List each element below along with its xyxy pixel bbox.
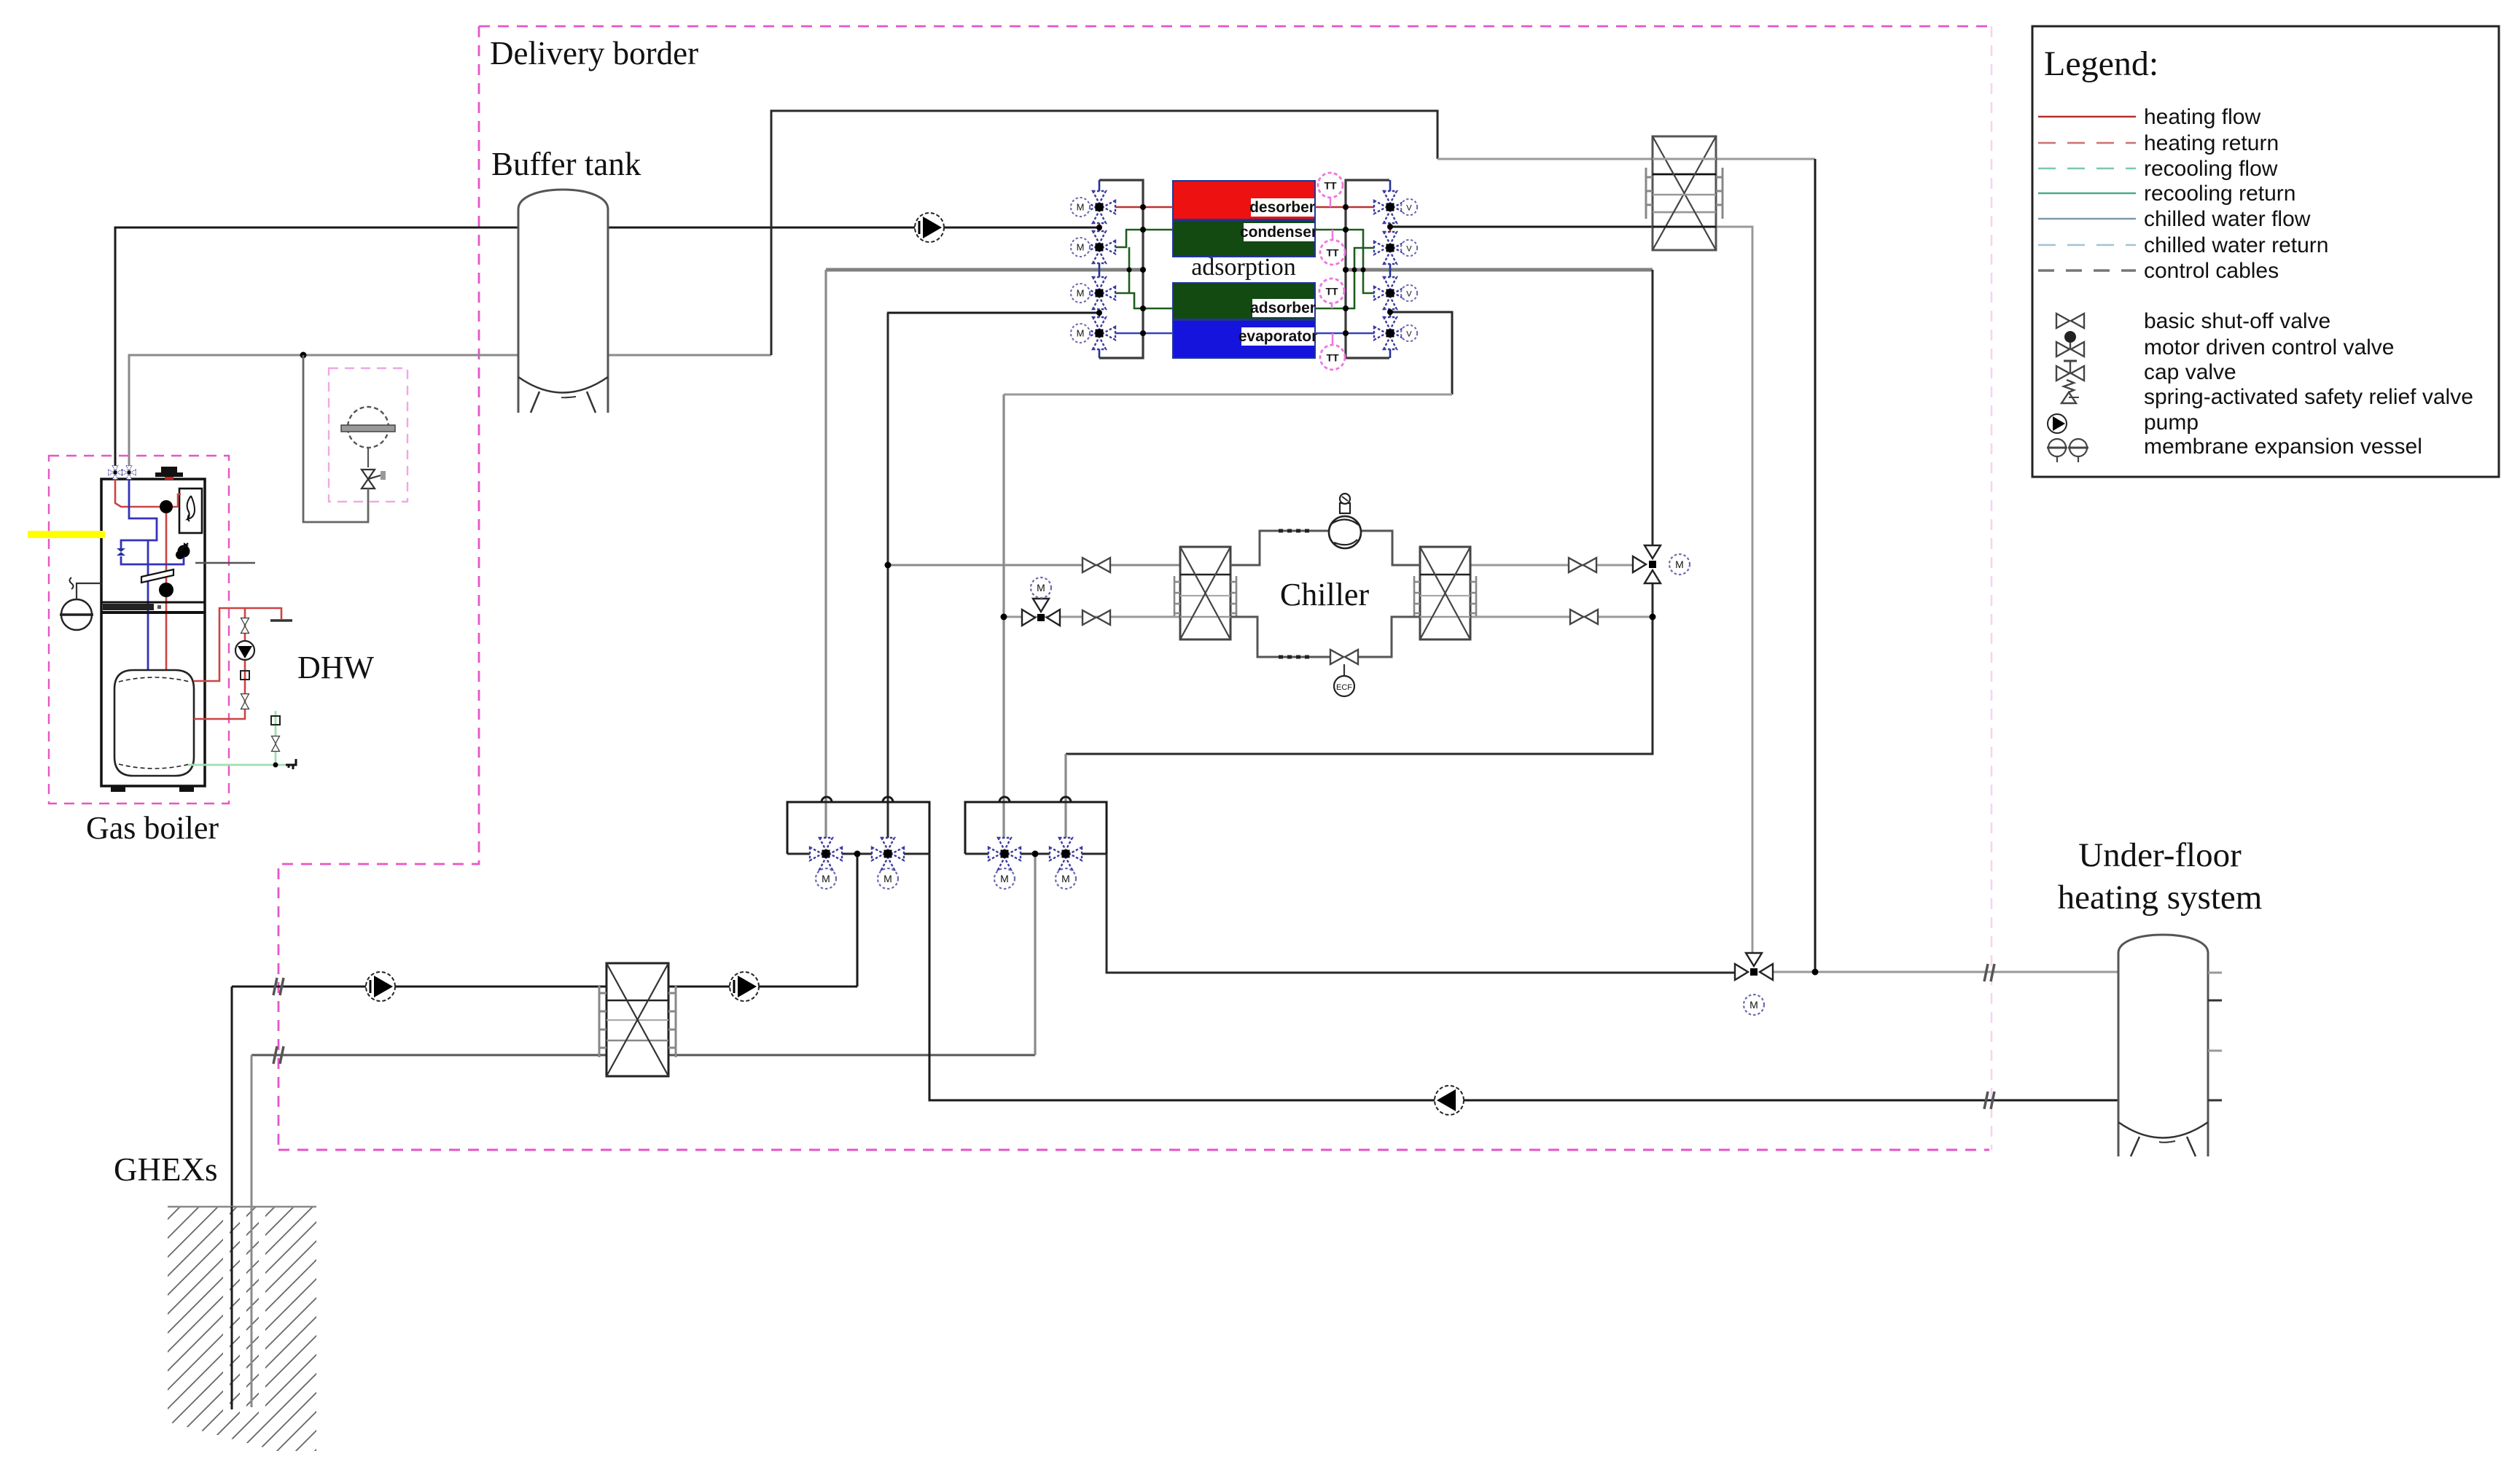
adsorption module evaporator box	[1173, 320, 1315, 358]
svg-text:GHEXs: GHEXs	[114, 1151, 218, 1188]
wire recooling thick gray right segment	[1346, 268, 1653, 272]
gas boiler flame chamber	[179, 489, 202, 533]
gas boiler pump top	[160, 500, 173, 513]
legend recooling flow line	[2038, 157, 2278, 181]
svg-text:desorber: desorber	[1249, 199, 1315, 216]
wire green cross link left	[1128, 247, 1131, 293]
legend box	[2032, 26, 2499, 477]
delivery border dashed boundary	[278, 26, 1992, 1150]
wire black drop from evaporator row to left cluster	[887, 312, 1099, 314]
vessel drain pipe to return line	[303, 355, 368, 522]
wire chilled top run to HX (gray)	[1438, 158, 1653, 160]
wire gray run to chiller lower drop	[1004, 394, 1452, 396]
legend cap valve symbol	[2056, 360, 2236, 384]
legend membrane expansion vessel symbol	[2047, 435, 2422, 462]
legend heating return line	[2038, 131, 2279, 155]
cluster valve 4	[1050, 838, 1082, 870]
node junction dots on main runs	[300, 352, 1819, 976]
wire heating flow buffer tank to adsorption valve column	[608, 227, 1099, 229]
gas supply yellow line	[28, 531, 105, 538]
wire left cluster bar	[787, 853, 929, 855]
wire heating flow right column to top-right heat exchanger	[1389, 226, 1653, 228]
TT sensor condenser	[1320, 230, 1345, 265]
wire chiller upper line right of HX	[1471, 564, 1637, 567]
motor valve right column evaporator	[1374, 317, 1406, 349]
legend chilled water flow line	[2038, 207, 2311, 231]
TT sensor adsorber	[1319, 279, 1344, 308]
chiller drain valve	[1330, 650, 1358, 664]
right manifold vertical	[1346, 180, 1389, 358]
svg-text:recooling return: recooling return	[2144, 182, 2295, 206]
wire buffer return to riser (gray)	[608, 354, 771, 357]
wire right drop to under-floor supply junction (black)	[1814, 159, 1817, 972]
wire left cluster bypass bracket	[787, 802, 929, 854]
svg-text:basic shut-off valve: basic shut-off valve	[2144, 309, 2330, 333]
wire recooling thick gray left segment	[826, 268, 1143, 272]
three-way motor valve recooling drop	[1633, 545, 1690, 583]
pump P4 under-floor return	[1435, 1086, 1464, 1115]
gas boiler DHW storage tank	[114, 670, 194, 776]
cold water sensor box	[271, 716, 280, 725]
svg-text:heating flow: heating flow	[2144, 105, 2260, 129]
pipe break ticks at delivery border	[273, 964, 1994, 1109]
chiller upper loop pipe	[1230, 531, 1329, 565]
svg-text:adsorber: adsorber	[1250, 300, 1316, 316]
three-way motor valve under-floor supply	[1735, 953, 1773, 1015]
label adsorber	[1250, 299, 1316, 317]
control cable boiler to DHW riser	[195, 562, 255, 564]
svg-text:Delivery border: Delivery border	[490, 35, 698, 71]
wire chiller lower line right of HX	[1471, 616, 1653, 618]
gas boiler dashed enclosure	[49, 456, 229, 804]
wire riser to top run (black)	[771, 111, 1438, 355]
svg-text:DHW: DHW	[297, 650, 375, 685]
svg-text:Chiller: Chiller	[1280, 577, 1370, 612]
heat exchanger bottom (ground loop)	[599, 963, 676, 1076]
wire bottom line A GHEX to left cluster	[232, 986, 857, 988]
DHW tap symbol	[270, 619, 292, 622]
motor valve right column adsorber	[1374, 277, 1406, 309]
chiller left heat exchanger	[1174, 547, 1236, 639]
gas boiler cabinet	[101, 479, 205, 786]
chiller flex coupling upper	[1279, 529, 1309, 533]
DHW riser hot pipe	[194, 608, 281, 719]
wire blue evaporator row left	[1111, 332, 1173, 335]
DHW check valve	[241, 618, 249, 634]
membrane vessel dashed enclosure	[329, 368, 407, 502]
wire chiller lower line from junction	[1004, 616, 1180, 618]
svg-text:cap valve: cap valve	[2144, 360, 2236, 384]
gas boiler mid band	[101, 602, 205, 612]
svg-text:chilled water flow: chilled water flow	[2144, 207, 2311, 231]
motor valve left column condenser	[1083, 231, 1115, 263]
svg-text:membrane expansion vessel: membrane expansion vessel	[2144, 435, 2422, 459]
wire heating return boiler to buffer tank (gray)	[129, 355, 518, 474]
wire supply from right cluster to under-floor valve	[1107, 854, 1744, 973]
pump P1 heating flow	[915, 213, 944, 242]
gas boiler pump mid	[178, 545, 190, 558]
pump P3 ground loop	[730, 972, 759, 1001]
wire GHEX down pipe gray	[251, 1055, 253, 1407]
left valve column connectors	[1099, 180, 1101, 192]
svg-text:motor driven control valve: motor driven control valve	[2144, 335, 2394, 359]
legend pump symbol	[2048, 411, 2199, 435]
wire HX to right drop (gray)	[1716, 158, 1815, 160]
membrane expansion vessel	[341, 407, 395, 448]
motor valve left column desorber	[1083, 191, 1115, 223]
left manifold vertical	[1099, 180, 1143, 358]
gas boiler top stem valves	[109, 466, 136, 479]
wire evaporator right row to drop	[1390, 312, 1452, 394]
pump P2 ground loop	[366, 972, 395, 1001]
svg-text:heating system: heating system	[2058, 879, 2263, 917]
gas boiler flue connection	[155, 467, 183, 480]
svg-text:recooling flow: recooling flow	[2144, 157, 2278, 181]
heat exchanger top right	[1646, 136, 1723, 250]
label evaporator	[1238, 327, 1318, 346]
cold water faucet	[286, 759, 296, 769]
legend recooling return line	[2038, 182, 2295, 206]
adsorption module desorber box	[1173, 181, 1315, 219]
chiller flex coupling lower	[1279, 655, 1309, 659]
legend control cables line	[2038, 259, 2279, 283]
wire recooling drop through 3-way valve to right cluster	[1652, 270, 1654, 549]
under-floor heating tank	[2118, 935, 2222, 1156]
wire under-floor supply from valve to tank (gray)	[1764, 971, 2118, 973]
shut-off valve chiller upper left	[1082, 558, 1110, 572]
chiller lower loop pipe	[1230, 617, 1330, 657]
safety relief valve	[362, 448, 386, 489]
wire red desorber row left	[1111, 206, 1173, 209]
right valve column connectors	[1389, 180, 1392, 192]
wire heating flow HX to under-floor supply valve	[1716, 227, 1752, 956]
gas boiler internal red piping	[115, 479, 181, 678]
wire hop bumps at cluster brackets	[822, 797, 1071, 802]
DHW circulation pump	[235, 641, 254, 660]
svg-text:Legend:: Legend:	[2044, 44, 2158, 83]
svg-text:Buffer tank: Buffer tank	[491, 146, 641, 182]
shut-off valve chiller lower right	[1570, 610, 1598, 624]
svg-text:adsorption: adsorption	[1191, 254, 1296, 281]
gas boiler pump low	[159, 583, 173, 597]
three-way motor valve chiller lower left	[1022, 577, 1060, 626]
motor valve left column adsorber	[1083, 277, 1115, 309]
svg-text:spring-activated safety relief: spring-activated safety relief valve	[2144, 385, 2473, 409]
label condenser	[1240, 223, 1317, 241]
wire blue evaporator row right	[1315, 332, 1378, 335]
wire red desorber row right	[1315, 206, 1378, 209]
expansion vessel boiler	[60, 577, 101, 630]
wire green condenser row left	[1111, 230, 1173, 247]
TT sensor evaporator	[1320, 333, 1345, 370]
svg-text:ECF: ECF	[1336, 683, 1352, 692]
gas boiler internal blue piping	[121, 479, 184, 763]
motor valve right column condenser	[1374, 232, 1406, 264]
DHW sensor box	[241, 671, 249, 680]
legend heating flow line	[2038, 105, 2260, 129]
svg-text:condenser: condenser	[1240, 224, 1317, 241]
chiller right heat exchanger	[1414, 547, 1476, 639]
shut-off valve chiller lower left	[1082, 610, 1110, 625]
motor valve left column evaporator	[1083, 317, 1115, 349]
wire GHEX down pipe black	[231, 987, 233, 1409]
svg-text:Under-floor: Under-floor	[2078, 836, 2242, 874]
svg-text:control cables: control cables	[2144, 259, 2279, 283]
adsorption module adsorber box	[1173, 283, 1315, 319]
wire return line to under-floor tank	[929, 854, 2118, 1100]
wire right cluster bypass bracket	[965, 802, 1107, 854]
cold water green line	[188, 711, 286, 765]
wire right cluster bar	[965, 853, 1107, 855]
shut-off valve chiller upper right	[1569, 558, 1596, 572]
svg-text:chilled water return: chilled water return	[2144, 233, 2328, 257]
motor valve right column desorber	[1374, 191, 1406, 223]
wire bottom line B to right cluster mid	[251, 1054, 1035, 1057]
cold water valve	[272, 736, 280, 752]
TT sensor desorber	[1318, 173, 1343, 207]
cluster valve 2	[872, 838, 904, 870]
adsorption module condenser box	[1173, 220, 1315, 257]
svg-text:Gas boiler: Gas boiler	[86, 810, 219, 846]
DHW shut-off valve	[241, 694, 249, 709]
gas boiler small valve	[117, 548, 125, 556]
label desorber	[1249, 198, 1315, 217]
gas boiler slanted separator	[141, 569, 173, 583]
legend chilled water return line	[2038, 233, 2328, 257]
cluster valve 3	[988, 838, 1021, 870]
GHEX ground hatch	[0, 1167, 694, 1459]
wire heating flow boiler to buffer tank	[115, 227, 518, 474]
wire green condenser to valve3 right	[1315, 230, 1378, 293]
wire green adsorber row left	[1111, 293, 1173, 308]
wire gray drop to left cluster	[824, 270, 827, 839]
gas boiler sensor blob	[176, 550, 184, 559]
legend motor driven control valve symbol	[2056, 331, 2394, 359]
legend basic shut-off valve symbol	[2056, 309, 2330, 333]
legend spring-activated safety relief valve symbol	[2061, 380, 2473, 409]
wire green adsorber to valve2 right	[1315, 248, 1378, 308]
node dots on manifolds	[1096, 204, 1393, 336]
buffer tank	[518, 190, 608, 413]
svg-text:evaporator: evaporator	[1238, 328, 1318, 345]
chiller compressor pump	[1329, 494, 1361, 548]
svg-text:heating return: heating return	[2144, 131, 2279, 155]
gas boiler feet	[111, 786, 125, 792]
svg-text:pump: pump	[2144, 411, 2199, 435]
cluster valve 1	[810, 838, 842, 870]
wire chiller upper line from junction	[888, 564, 1180, 567]
